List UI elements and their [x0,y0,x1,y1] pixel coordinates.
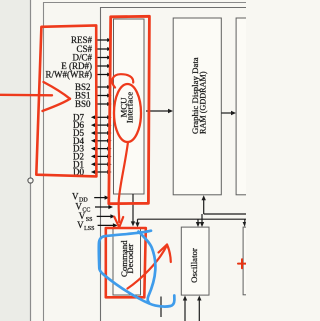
top-right block [236,18,256,195]
wire D6 [94,124,110,126]
pin labels and lines [46,35,93,109]
wire RES# [96,39,109,41]
svg-text:SS: SS [86,217,93,223]
wire D7 [94,116,110,118]
red annotation: arrow oval to command decoder [114,142,128,227]
svg-text:Decoder: Decoder [125,244,135,274]
red annotation: box around MCU interface [109,16,150,203]
wire D5 [94,132,110,134]
arrow MCU to GDDRAM [146,109,173,113]
svg-text:V: V [77,220,84,230]
bus line A [204,213,246,215]
wire bus to bottom-right block [243,219,246,227]
page background [0,0,246,321]
chip outline [101,8,247,321]
MCU interface label [118,92,134,123]
svg-text:BS0: BS0 [75,99,91,109]
wire R/W#(WR#) [96,74,109,76]
wire VCC [95,206,110,208]
arrow GDDRAM to right block [221,111,236,115]
GDDRAM label [190,57,208,134]
svg-text:Oscillator: Oscillator [189,248,199,283]
wire D4 [94,140,110,142]
data pin labels D7-D0 [73,112,84,177]
wires bus to oscillator [196,214,204,227]
wire D/C# [96,57,109,59]
wire bus to command decoder [135,219,139,227]
red annotation: plus sign [238,259,246,268]
red annotation: curved arrow near oscillator [128,245,171,289]
red annotation: line to BS1 [0,82,70,111]
svg-text:Interface: Interface [124,92,134,123]
oscillator block [181,227,209,295]
wire BS0 [96,103,109,105]
wire D2 [94,155,110,157]
oscillator bottom wires [183,296,202,321]
svg-text:RAM (GDDRAM): RAM (GDDRAM) [199,71,208,134]
GDDRAM block [173,18,221,195]
wire BS2 [96,86,109,88]
svg-text:R/W#(WR#): R/W#(WR#) [46,70,93,80]
arrow MCU to command decoder [131,194,135,226]
MCU interface block [114,19,145,194]
wire GDDRAM down to bus [202,195,206,214]
power pin labels [72,191,94,232]
red annotation: box around pins [36,25,96,176]
wire VSS [97,215,113,217]
svg-text:V: V [72,191,79,201]
blue annotation: loop around command decoder [99,231,175,307]
bus line B [138,218,247,220]
figure frame [44,3,247,321]
node circle [28,178,33,183]
wire D0 [94,171,110,173]
wire E (RD#) [96,65,109,67]
wire VLSS [98,224,115,226]
wire (left vertical) [30,0,32,321]
wire D1 [94,163,110,165]
bottom-right block [243,227,257,295]
wire below command decoder area [160,297,162,318]
wire D3 [94,148,110,150]
red annotation: squiggle above oval [112,74,133,87]
wire CS# [96,48,109,50]
red annotation: oval around MCU text [114,84,141,142]
command decoder label [119,240,135,277]
left margin band [0,0,30,321]
wire BS1 [96,95,109,97]
command decoder block [113,228,141,295]
red annotation: box around command decoder [106,228,146,297]
svg-text:LSS: LSS [84,226,94,232]
wire VDD [94,197,106,199]
